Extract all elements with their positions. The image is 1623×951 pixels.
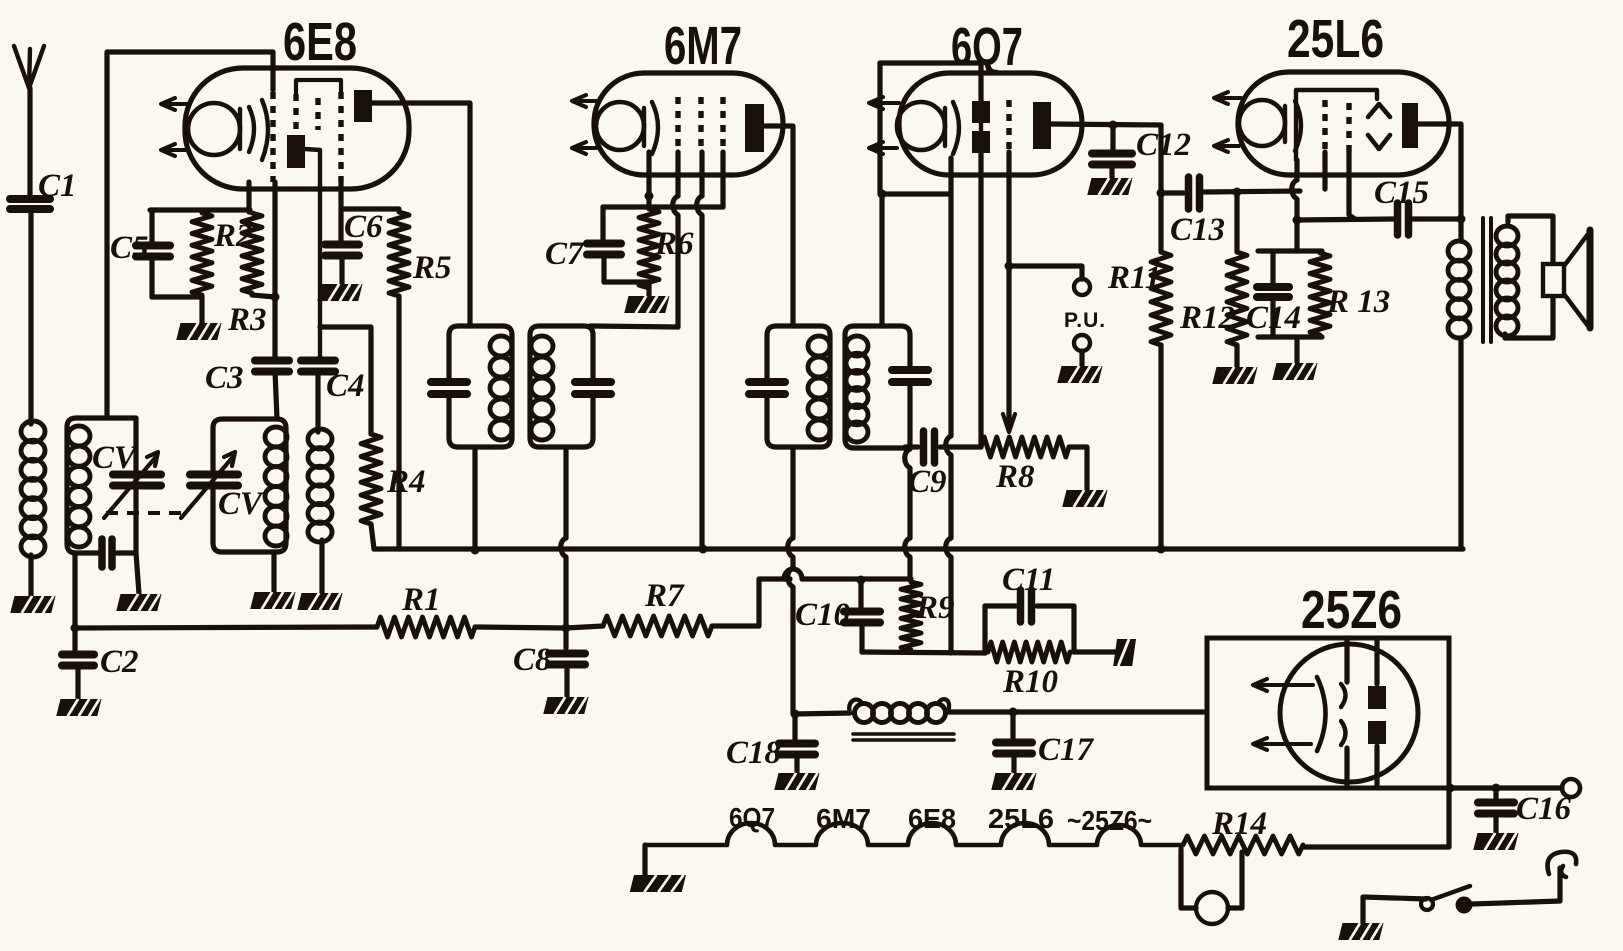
resistor R10 (988, 642, 1070, 662)
svg-text:6E8: 6E8 (283, 12, 357, 72)
wire tank to ground right (136, 553, 139, 594)
cathode circle 6M7 (596, 102, 644, 150)
svg-text:C9: C9 (908, 464, 947, 500)
wire C13 left (1161, 190, 1184, 195)
svg-text:C12: C12 (1136, 127, 1191, 163)
oscillator anode 6E8 (287, 135, 305, 168)
inner screen 25L6 (1296, 90, 1377, 160)
25Z6 box (1207, 638, 1449, 788)
wire C6 R5 top (341, 206, 399, 211)
variable capacitor CV2 plates (190, 471, 238, 479)
heater arrows 6Q7 (875, 101, 899, 105)
IFT1 primary cap (431, 378, 467, 386)
resistor R13 (1310, 253, 1330, 335)
ground antenna coil (10, 596, 55, 613)
wire R3 stub (252, 295, 275, 297)
IFT2 secondary cap (892, 366, 928, 374)
wire 6M7 cathode lead (646, 152, 651, 207)
arrow CV1 (104, 452, 158, 518)
wire 25L6 plate to transformer (1418, 124, 1461, 241)
IFT1 secondary cap (575, 378, 611, 386)
IFT1 primary coil (490, 336, 512, 356)
svg-text:6Q7: 6Q7 (729, 802, 775, 833)
wire osc anode to C4 (305, 149, 320, 359)
svg-text:C5: C5 (110, 230, 149, 266)
ground CV1 (116, 594, 161, 611)
wire IFT2 sec bottom to R9 (905, 443, 910, 580)
capacitor C7 (600, 207, 605, 241)
output transformer primary (1448, 241, 1470, 261)
wire C7 R6 top (603, 204, 723, 209)
grid columns 25L6 (1322, 100, 1327, 152)
P.U. terminal bottom (1074, 335, 1090, 351)
output transformer secondary (1496, 226, 1518, 246)
tube 25Z6 envelope (1280, 644, 1418, 782)
wire R14 to 25Z6 (1303, 788, 1449, 847)
ground R12 (1212, 367, 1257, 384)
oscillator coupling coil (308, 429, 332, 449)
IFT2 primary coil (808, 336, 830, 356)
svg-text:C11: C11 (1002, 562, 1055, 598)
wire tank bottom to AVC bus (72, 553, 77, 628)
IFT2 primary cap (749, 378, 785, 386)
heater arrows 6E8 (167, 102, 190, 106)
ground C18 (774, 773, 819, 790)
grid columns 6E8 (270, 92, 275, 182)
ground R2 (176, 323, 221, 340)
svg-text:R14: R14 (1211, 806, 1267, 842)
wire R5 to B+ rail (396, 296, 401, 549)
wire 6M7 suppressor (720, 152, 725, 207)
wire P.U. to ground (1079, 351, 1084, 366)
tube 6E8 envelope (185, 68, 409, 189)
plate 6Q7 (1033, 102, 1051, 149)
IFT2 secondary tank (845, 326, 910, 448)
tank box CV1 (67, 418, 136, 553)
wire C1 to antenna coil (28, 210, 33, 424)
wire 25L6 screen lead (1349, 152, 1355, 219)
wire cathode node to C15 (1297, 219, 1394, 220)
wire grid top feed (107, 52, 273, 418)
wire 6E8 osc grid down (272, 182, 277, 297)
wire DC output (1449, 785, 1562, 790)
ground coupling coil (297, 593, 342, 610)
capacitor C11 box top (985, 603, 1016, 608)
ground R6 (624, 296, 669, 313)
variable capacitor CV plates (113, 471, 161, 479)
speaker cone (1564, 234, 1588, 326)
capacitor C4 (301, 357, 335, 365)
resistor R6 (639, 209, 659, 288)
capacitor C10 (858, 580, 863, 607)
ground switch (1338, 923, 1383, 940)
svg-text:~25Z6~: ~25Z6~ (1067, 805, 1152, 836)
bias network box (1258, 248, 1322, 253)
capacitor C9 (920, 431, 928, 463)
wire C13 to 25L6 grid (1204, 191, 1300, 192)
plate 25L6 (1402, 103, 1418, 148)
cathode arc 6M7 (652, 102, 658, 154)
ground C17 (991, 773, 1036, 790)
B+ rail (374, 546, 1463, 551)
potentiometer R8 (981, 437, 1069, 457)
svg-text:R7: R7 (644, 578, 685, 614)
heater string wire (645, 823, 1183, 845)
wire bias to ground (1294, 337, 1299, 363)
wire R7 to C10 node (566, 626, 603, 628)
wire R11 to rail (1158, 345, 1163, 549)
wire IFT2 sec top to 6Q7 (879, 194, 884, 326)
wire antenna to C1 (27, 88, 32, 196)
wire primary to rail (1458, 338, 1463, 549)
ground R8 (1062, 490, 1107, 507)
heater arrows 25L6 (1220, 96, 1241, 100)
svg-text:C3: C3 (205, 360, 244, 396)
wire R10 to terminal (1074, 649, 1116, 654)
grid column 6Q7 (1006, 100, 1011, 152)
svg-text:6M7: 6M7 (816, 803, 871, 834)
tube 6Q7 envelope (899, 73, 1082, 175)
resistor R4 (361, 434, 381, 524)
wire AVC to R9 top (784, 569, 911, 579)
cathode circle 6E8 (188, 103, 240, 155)
wire R8 to ground (1069, 447, 1087, 490)
svg-text:R5: R5 (412, 250, 452, 286)
resistor R1 (377, 617, 475, 637)
wire 6Q7 diode feed top (880, 63, 981, 101)
diode plates 6Q7 (972, 101, 990, 123)
terminal block R10 (1113, 639, 1136, 666)
resistor R12 (1234, 192, 1239, 252)
IFT1 primary tank (449, 326, 512, 447)
wire C15 to plate line (1413, 216, 1461, 221)
svg-text:R4: R4 (386, 464, 426, 500)
wire coil to ground (28, 555, 33, 596)
capacitor C2 (72, 628, 77, 651)
choke core (853, 732, 954, 736)
switch contact (1456, 897, 1473, 914)
svg-text:R 13: R 13 (1326, 284, 1390, 320)
capacitor C11 (1017, 590, 1025, 622)
ground CV2 (250, 592, 295, 609)
cathode circle 6Q7 (897, 102, 945, 150)
svg-text:C17: C17 (1038, 732, 1095, 768)
wire 25L6 grid leads (1292, 160, 1297, 220)
25Z6 plate leads (1374, 638, 1379, 684)
wire R2 R3 top (150, 207, 250, 212)
pilot lamp leads (1181, 849, 1196, 908)
transformer core (1481, 218, 1485, 342)
capacitor C18 (792, 714, 797, 741)
wire 6Q7 grid to pot wiper (1006, 152, 1011, 424)
heater arrows 6M7 (578, 99, 598, 103)
svg-text:C6: C6 (344, 209, 383, 245)
pilot lamp (1196, 892, 1228, 924)
resistor R9 (901, 582, 921, 650)
heater arrows 25Z6 (1259, 683, 1313, 687)
wire to P.U. (1009, 266, 1082, 279)
wire secondary top (1505, 216, 1553, 338)
beam plates 25L6 (1368, 104, 1390, 117)
wire 6Q7 diode load (978, 152, 983, 447)
padder capacitor (98, 539, 106, 567)
svg-text:25L6: 25L6 (1287, 9, 1384, 69)
grid columns 6M7 (675, 97, 680, 150)
wire R4 to rail (371, 524, 374, 549)
capacitor C6 (338, 209, 343, 242)
antenna coil L1 (21, 421, 45, 442)
wire C9 to R8 (940, 444, 981, 449)
svg-text:C8: C8 (513, 642, 552, 678)
coil CV2 tank (265, 427, 287, 447)
wire IFT1 sec top to 6M7 grid (590, 326, 678, 327)
cathode arcs 6E8 (249, 107, 254, 152)
capacitor C12 (1110, 125, 1115, 150)
resistor R14 (1183, 836, 1303, 854)
wire C4 to coupling coil (315, 373, 320, 432)
IFT2 secondary coil (846, 336, 868, 356)
capacitor C1 (10, 195, 50, 203)
wire cathode to R13 C14 (1294, 220, 1299, 251)
mains plug prong (1548, 852, 1577, 877)
svg-text:6Q7: 6Q7 (951, 17, 1023, 77)
wire C7 R6 bottom (604, 279, 649, 284)
resistor R7 (603, 616, 712, 636)
resistor R2 (192, 213, 212, 295)
wire R2 to ground (199, 297, 204, 323)
capacitor C15 (1394, 203, 1402, 235)
tube 6M7 envelope (594, 73, 783, 175)
speaker rim (1587, 230, 1594, 328)
wire anode jog to R4 (320, 327, 371, 434)
capacitor C17 (1010, 712, 1015, 740)
wire 6Q7 left down (877, 63, 882, 194)
IFT1 secondary coil (531, 336, 553, 356)
heater arc 25Z6 (1317, 677, 1326, 751)
wire switch to plug (1472, 868, 1560, 904)
svg-text:R6: R6 (654, 226, 694, 262)
switch lever (1431, 886, 1470, 900)
wire 6Q7 cathode to R9 C10 (946, 158, 951, 653)
arrow CV2 (181, 452, 235, 518)
svg-text:R3: R3 (227, 302, 267, 338)
svg-text:C16: C16 (1516, 791, 1572, 827)
filter choke (849, 700, 862, 713)
svg-text:25L6: 25L6 (988, 803, 1054, 834)
svg-text:R9: R9 (915, 590, 955, 626)
capacitor C14 (1270, 251, 1275, 284)
svg-text:C18: C18 (726, 735, 781, 771)
plates 25Z6 (1368, 686, 1386, 709)
svg-text:CV: CV (218, 486, 265, 522)
wire cathode bottom bus (862, 652, 985, 653)
wire 6M7 plate to IFT2 (764, 126, 793, 326)
svg-text:C10: C10 (795, 597, 850, 633)
output terminal (1562, 779, 1580, 797)
P.U. terminal top (1074, 279, 1090, 295)
IFT2 primary tank (767, 326, 830, 447)
wire coupling coil to ground (319, 540, 324, 593)
inner bridge 6E8 (296, 80, 341, 93)
wire filter input (795, 713, 850, 714)
resistor R11 (1151, 252, 1171, 345)
wire R12 to ground (1234, 345, 1239, 367)
wire IFT1 to rail (472, 447, 477, 549)
wire 6Q7 plate out (1051, 124, 1161, 252)
svg-text:R10: R10 (1002, 664, 1058, 700)
ground P.U. (1057, 366, 1102, 383)
ground C2 (56, 699, 101, 716)
ground C12 (1087, 178, 1132, 195)
svg-text:C7: C7 (545, 236, 585, 272)
svg-text:25Z6: 25Z6 (1301, 580, 1402, 640)
cathode arc 6Q7 (953, 102, 959, 154)
gang dashed line (106, 511, 182, 515)
ground C14 R13 (1272, 363, 1317, 380)
ground C16 (1473, 833, 1518, 850)
ground C8 (543, 697, 588, 714)
wire choke to 25Z6 (948, 709, 1207, 714)
ground heater string (642, 845, 647, 875)
capacitor C16 (1493, 788, 1498, 799)
svg-text:R12: R12 (1179, 300, 1235, 336)
svg-text:C13: C13 (1170, 212, 1225, 248)
wire C5 R2 bottom (152, 294, 202, 299)
svg-text:R1: R1 (401, 582, 441, 618)
svg-text:C4: C4 (326, 368, 365, 404)
wire IFT1 sec to C8 junction (561, 447, 566, 628)
resistor R3 (242, 213, 262, 293)
svg-text:R8: R8 (995, 459, 1035, 495)
wire detector (905, 444, 918, 449)
svg-text:C2: C2 (100, 644, 139, 680)
wire screen lead to C6 (338, 182, 343, 209)
svg-text:6M7: 6M7 (664, 16, 742, 76)
wire 6E8 plate to IFT1 (372, 103, 470, 326)
wire to C11 R10 (982, 606, 987, 653)
plate 6M7 (745, 104, 764, 152)
svg-text:C14: C14 (1246, 300, 1301, 336)
capacitor C3 (272, 355, 277, 362)
wire 6Q7 cathode link (880, 191, 949, 196)
svg-text:6E8: 6E8 (908, 803, 956, 834)
tube 25L6 envelope (1238, 72, 1449, 175)
wire R1 to C8 node (475, 627, 566, 628)
resistor R5 (389, 212, 409, 296)
svg-text:C15: C15 (1374, 175, 1429, 211)
wire C11 right side (1071, 606, 1076, 652)
svg-text:R11: R11 (1107, 260, 1161, 296)
capacitor C5 (149, 210, 154, 244)
switch pivot (1421, 898, 1433, 910)
cathode arc 25L6 (1295, 101, 1301, 151)
tank box CV2 oscillator (213, 419, 286, 552)
antenna (14, 46, 44, 88)
svg-text:C1: C1 (38, 168, 77, 204)
speaker voice coil (1543, 264, 1564, 296)
cathode circle 25L6 (1239, 100, 1285, 146)
AVC bus left (75, 627, 377, 628)
ground C6 (317, 284, 362, 301)
wire IFT2 primary to filter (788, 447, 793, 714)
plate 6E8 (354, 90, 372, 122)
svg-text:P.U.: P.U. (1064, 309, 1106, 332)
wire 6E8 cathode lead (246, 182, 251, 212)
capacitor C13 (1185, 177, 1193, 209)
cathode arcs 25Z6 (1341, 684, 1346, 707)
IFT1 secondary tank (530, 326, 593, 447)
25Z6 cathode leads (1344, 638, 1349, 682)
coil CV1 tank (68, 426, 90, 446)
capacitor C8 (563, 628, 568, 648)
wire CV2 to ground (271, 552, 276, 592)
wire 6M7 screen to rail (697, 152, 702, 549)
wire switch left (1363, 897, 1426, 923)
